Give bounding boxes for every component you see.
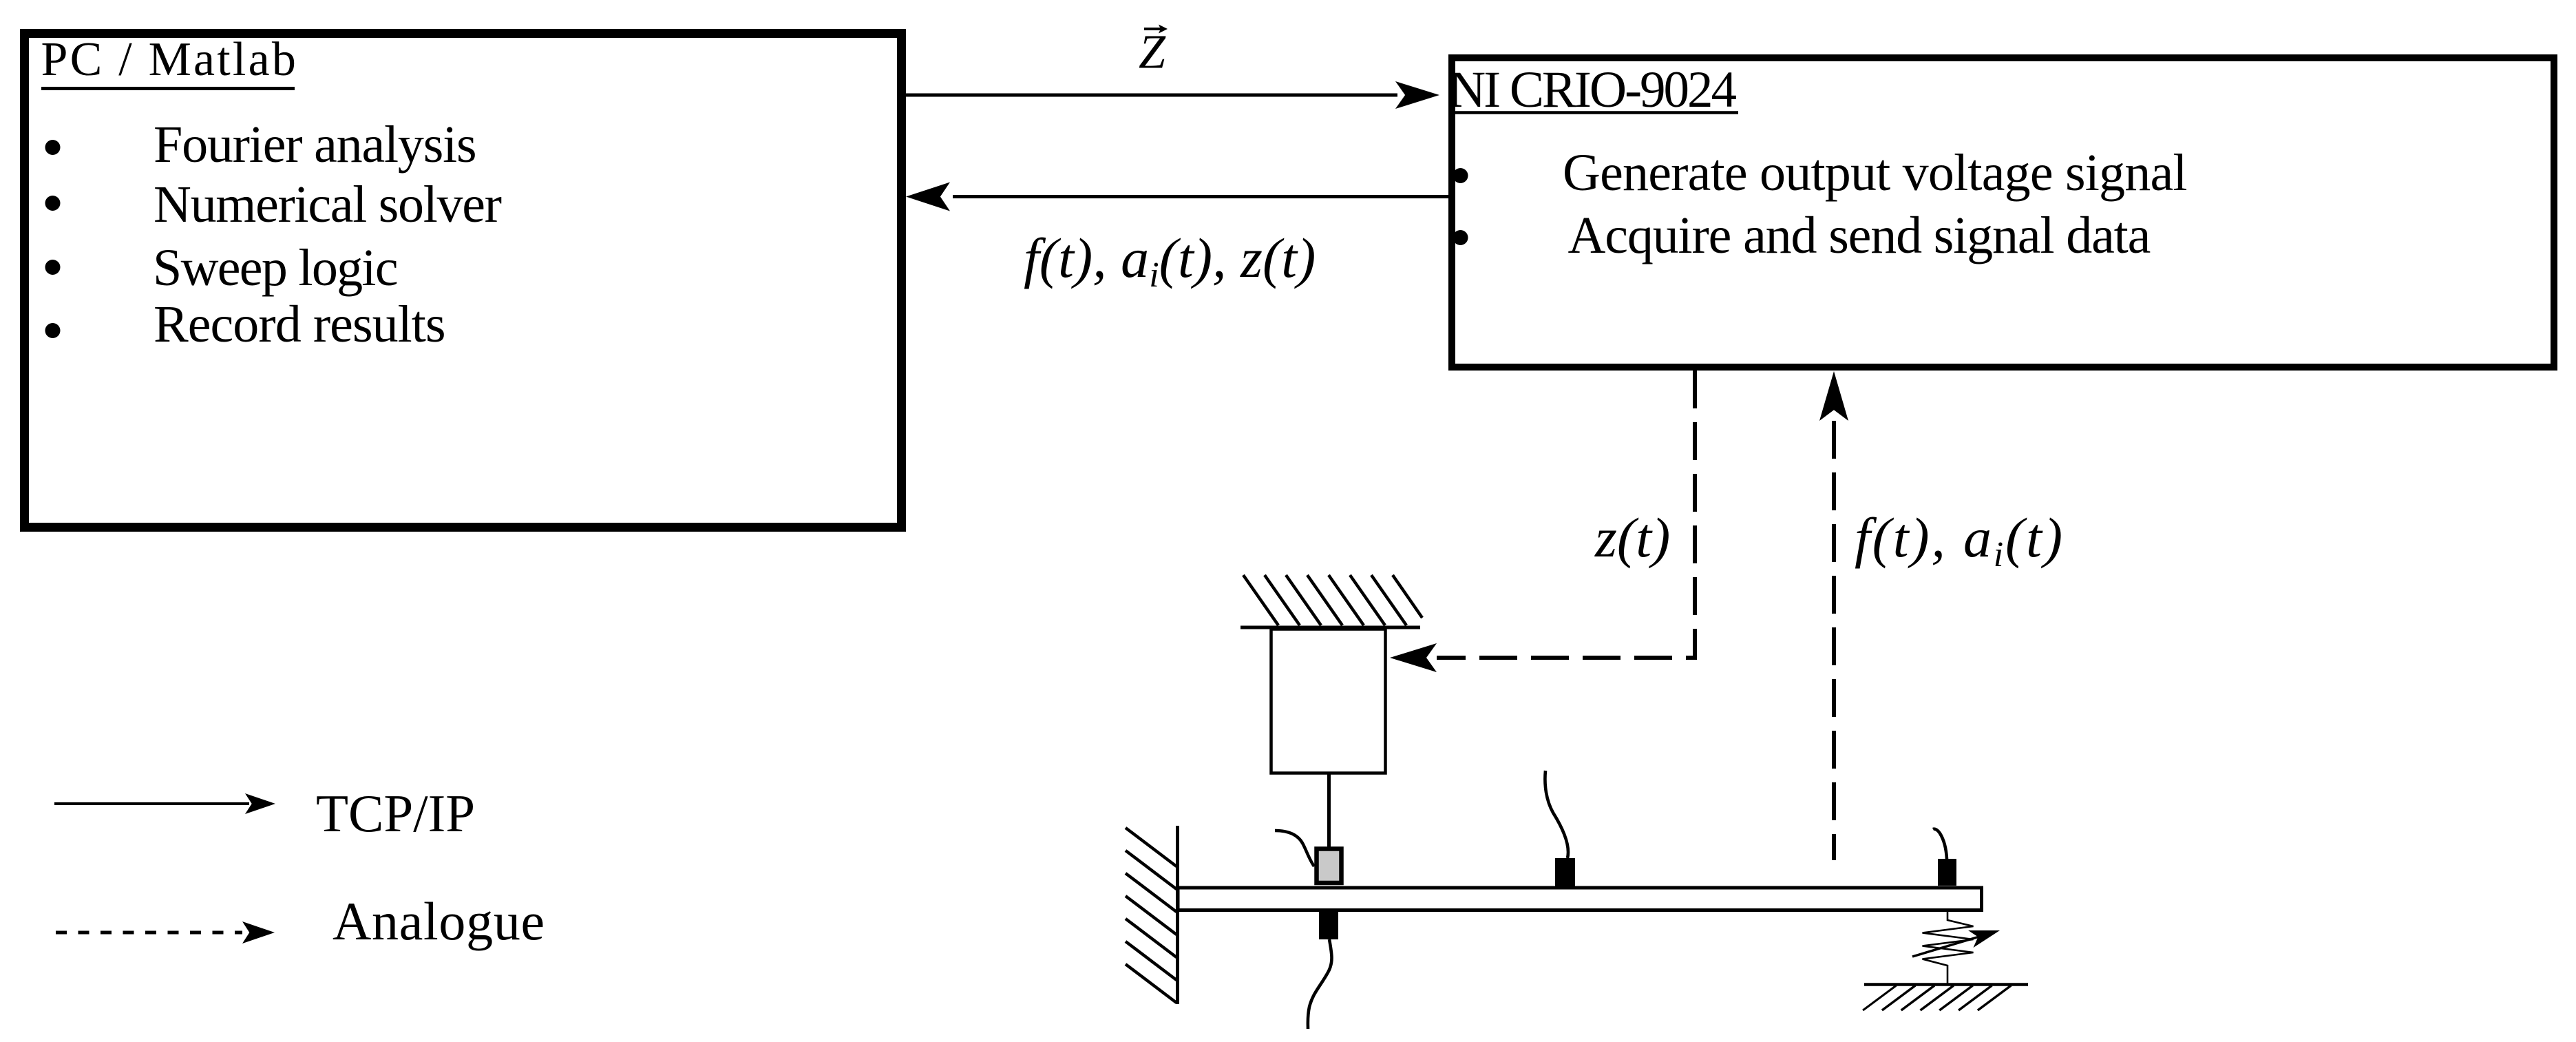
svg-text:Fourier analysis: Fourier analysis <box>154 116 476 174</box>
Z vector arrow accent <box>1144 28 1161 30</box>
legend TCP/IP arrow <box>54 802 249 805</box>
accelerometer A3 (beam tip) <box>1938 859 1956 886</box>
bullet: Acquire and send signal data <box>1453 230 1468 245</box>
ceiling support hatching <box>1243 575 1278 625</box>
svg-text:Record results: Record results <box>154 295 445 353</box>
svg-text:Analogue: Analogue <box>332 891 545 951</box>
ground hatching <box>1863 986 1896 1010</box>
ceiling line <box>1241 626 1420 629</box>
svg-text:Acquire and send signal data: Acquire and send signal data <box>1568 207 2151 264</box>
accelerometer A2 cable <box>1545 771 1568 858</box>
force transducer (grey) <box>1317 849 1342 884</box>
bullet: Record results <box>45 323 61 338</box>
beam <box>1178 888 1982 910</box>
ground line <box>1864 983 2028 986</box>
spring K1 <box>1923 912 1974 986</box>
spring adjust arrow <box>1912 936 1983 957</box>
svg-text:z(t): z(t) <box>1594 506 1670 569</box>
PC/Matlab title underline <box>41 87 295 90</box>
svg-text:Generate output voltage signal: Generate output voltage signal <box>1563 144 2187 202</box>
shaker (exciter) <box>1271 629 1386 773</box>
wire: analogue z(t) dashed line NI to shaker <box>1437 371 1695 658</box>
wire: analogue f(t),ai(t) dashed line beam to NI <box>1832 421 1836 860</box>
svg-text:f(t), ai(t): f(t), ai(t) <box>1855 506 2065 574</box>
svg-text:Sweep logic: Sweep logic <box>153 239 397 297</box>
svg-text:TCP/IP: TCP/IP <box>316 784 475 843</box>
bullet: Fourier analysis <box>45 140 61 155</box>
NI title underline <box>1448 111 1738 114</box>
force transducer cable <box>1275 831 1314 866</box>
accelerometer A3 cable <box>1933 829 1947 859</box>
svg-text:Z: Z <box>1139 26 1166 79</box>
accelerometer A2 (mid beam) <box>1555 858 1575 886</box>
bullet: Numerical solver <box>45 196 61 211</box>
bullet: Generate output voltage signal <box>1453 168 1468 183</box>
svg-text:f(t), ai(t), z(t): f(t), ai(t), z(t) <box>1024 227 1316 295</box>
svg-text:Numerical solver: Numerical solver <box>154 176 502 233</box>
NI CRIO-9024 block U2 <box>1452 58 2554 367</box>
PC/Matlab block U1 <box>25 34 902 528</box>
stinger rod <box>1327 773 1331 848</box>
wall line <box>1176 826 1179 1004</box>
wire: TCP/IP arrow PC to NI <box>906 94 1397 97</box>
accelerometer A1 cable <box>1308 939 1332 1029</box>
legend Analogue dashed arrow <box>56 931 242 935</box>
wire: TCP/IP return arrow NI to PC <box>953 195 1455 198</box>
wall hatching <box>1126 828 1176 866</box>
bullet: Sweep logic <box>45 260 61 275</box>
accelerometer A1 (below beam) <box>1319 912 1338 939</box>
svg-text:PC / Matlab: PC / Matlab <box>41 33 299 86</box>
svg-text:NI CRIO-9024: NI CRIO-9024 <box>1448 61 1737 118</box>
